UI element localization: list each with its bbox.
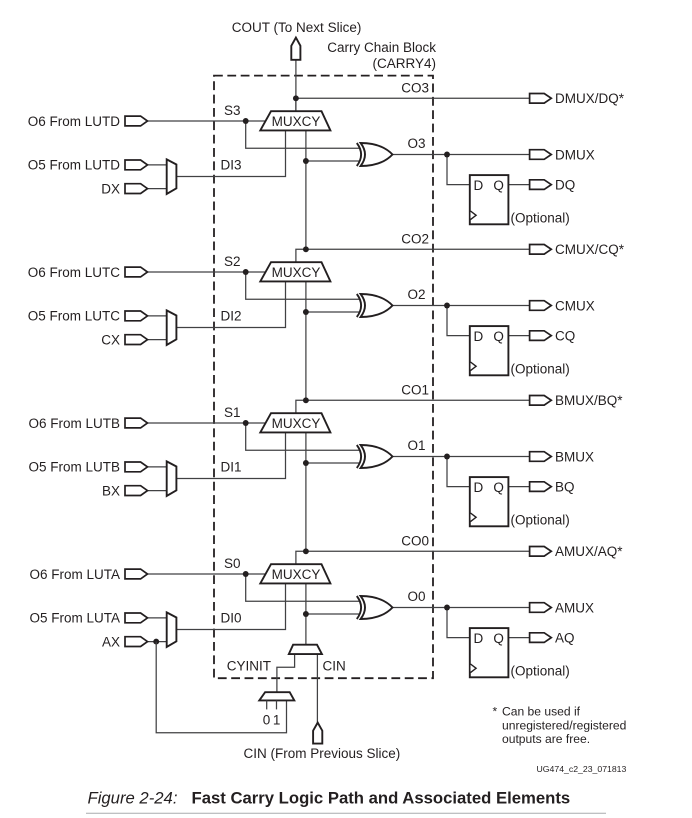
wire: DI2 from mux to MUXCY [176, 281, 285, 327]
wire: O5 to select mux [146, 315, 168, 317]
wire: MUXCY carry out up to CO2 node [296, 249, 306, 262]
svg-text:DMUX/DQ*: DMUX/DQ* [555, 91, 625, 106]
input connector: O6 From LUTB [125, 418, 148, 428]
svg-text:O1: O1 [408, 438, 426, 453]
junction: carry/XOR branch node [303, 309, 309, 315]
svg-text:O2: O2 [408, 287, 426, 302]
svg-text:Q: Q [493, 178, 504, 193]
svg-text:CX: CX [101, 332, 120, 347]
svg-text:O3: O3 [408, 136, 426, 151]
mux: O5/AX selector [167, 612, 177, 647]
svg-text:Fast Carry Logic Path and Asso: Fast Carry Logic Path and Associated Ele… [192, 788, 571, 807]
wire: DI0 from mux to MUXCY [176, 583, 285, 629]
svg-text:O0: O0 [408, 589, 426, 604]
wire: CO1 line to output [306, 399, 531, 401]
XOR gate stage 3 input arc [357, 143, 361, 166]
svg-text:AQ: AQ [555, 630, 575, 645]
wire: BX to select mux [146, 490, 168, 492]
wire: S0 node down to XOR input [246, 574, 360, 601]
svg-text:MUXCY: MUXCY [272, 567, 321, 582]
svg-text:(Optional): (Optional) [511, 664, 570, 679]
pin stub: constant 1 input [276, 700, 278, 709]
flip-flop stage 1 [470, 477, 509, 526]
wire: carry branch to XOR input [306, 160, 359, 162]
wire: O1 node down to flip-flop D input [447, 457, 471, 487]
wire: S1 node down to XOR input [246, 423, 360, 450]
wire: MUXCY carry out to CO3 node [295, 98, 297, 111]
wire: MUXCY carry out up to CO1 node [296, 400, 306, 413]
flip-flop stage 2 [470, 326, 509, 375]
svg-text:O6 From LUTA: O6 From LUTA [29, 567, 120, 582]
svg-text:CIN (From Previous Slice): CIN (From Previous Slice) [244, 746, 401, 761]
output connector: AMUX/AQ* [530, 547, 552, 557]
svg-text:D: D [474, 178, 484, 193]
wire: carry-in chain into MUXCY bottom [305, 583, 307, 644]
wire: carry-in chain into MUXCY bottom [305, 130, 307, 249]
svg-text:S0: S0 [224, 556, 241, 571]
junction: CO1 node [303, 397, 309, 403]
svg-text:MUXCY: MUXCY [272, 265, 321, 280]
pin stub: constant 0 input [266, 700, 268, 709]
wire: O0 node down to flip-flop D input [447, 608, 471, 638]
wire: O2 node down to flip-flop D input [447, 306, 471, 336]
wire: S3 node to MUXCY select [246, 120, 267, 122]
mux: O5/BX selector [167, 461, 177, 496]
junction: O0 node [444, 605, 450, 611]
svg-text:D: D [474, 329, 484, 344]
mux: O5/CX selector [167, 310, 177, 345]
output connector: CMUX/CQ* [530, 245, 552, 255]
junction: carry/XOR branch node [303, 611, 309, 617]
dashed boundary: Carry Chain Block (CARRY4) [214, 76, 433, 679]
wire: flip-flop Q to AQ output [508, 637, 531, 639]
output connector: CMUX [530, 301, 552, 311]
wire: AX to select mux [146, 641, 168, 643]
svg-text:*: * [493, 705, 498, 719]
output connector: DQ [530, 180, 552, 190]
XOR gate stage 0 body [361, 596, 393, 619]
input connector: O6 From LUTC [125, 267, 148, 277]
svg-text:MUXCY: MUXCY [272, 416, 321, 431]
junction: S0 node [243, 571, 249, 577]
svg-text:DX: DX [101, 181, 120, 196]
input connector: BX [125, 486, 148, 496]
svg-text:CQ: CQ [555, 328, 575, 343]
wire: carry branch to XOR input [306, 462, 359, 464]
svg-text:MUXCY: MUXCY [272, 114, 321, 129]
XOR gate stage 2 body [361, 294, 393, 317]
wire: CO0 line to output [306, 550, 531, 552]
svg-text:Can be used if: Can be used if [502, 705, 581, 719]
wire: S0 node to MUXCY select [246, 573, 267, 575]
svg-text:UG474_c2_23_071813: UG474_c2_23_071813 [537, 764, 627, 774]
input connector: O6 From LUTA [125, 569, 148, 579]
input connector: O5 From LUTB [125, 462, 148, 472]
flip-flop stage 0 [470, 628, 509, 677]
svg-text:S2: S2 [224, 254, 241, 269]
wire: carry branch to XOR input [306, 311, 359, 313]
port connector: CIN (from previous slice) [313, 723, 322, 744]
junction: carry/XOR branch node [303, 158, 309, 164]
svg-text:CMUX: CMUX [555, 298, 595, 313]
input connector: O5 From LUTC [125, 311, 148, 321]
svg-text:S3: S3 [224, 103, 241, 118]
output connector: AMUX [530, 603, 552, 613]
svg-text:CO0: CO0 [401, 533, 429, 548]
mux: MUXCY stage 0 [260, 564, 330, 583]
mux: MUXCY stage 1 [260, 413, 330, 432]
wire: DX to select mux [146, 188, 168, 190]
wire: O6 to S0 node [146, 573, 246, 575]
wire: flip-flop Q to DQ output [508, 184, 531, 186]
wire: COUT vertical into MUXCY stage 3 [295, 59, 297, 111]
junction: CO2 node [303, 246, 309, 252]
junction: CO0 node [303, 548, 309, 554]
svg-text:(Optional): (Optional) [511, 362, 570, 377]
wire: O5 to select mux [146, 164, 168, 166]
wire: S3 node down to XOR input [246, 121, 360, 148]
svg-text:AMUX: AMUX [555, 600, 594, 615]
flip-flop clock pin triangle [471, 513, 477, 522]
svg-text:(Optional): (Optional) [511, 513, 570, 528]
caption rule [86, 812, 606, 814]
input connector: O5 From LUTD [125, 160, 148, 170]
svg-text:BQ: BQ [555, 479, 575, 494]
flip-flop clock pin triangle [471, 362, 477, 371]
svg-text:Q: Q [493, 631, 504, 646]
wire: DI3 from mux to MUXCY [176, 130, 285, 176]
svg-text:O6 From LUTD: O6 From LUTD [28, 114, 121, 129]
input connector: CX [125, 335, 148, 345]
wire: MUXCY carry out up to CO0 node [296, 551, 306, 564]
mux: 0/1 constant selector [259, 692, 294, 700]
wire: O5 to select mux [146, 617, 168, 619]
output connector: DMUX [530, 150, 552, 160]
svg-text:CO3: CO3 [401, 80, 429, 95]
XOR gate stage 1 body [361, 445, 393, 468]
svg-text:CIN: CIN [323, 658, 346, 673]
wire: O5 to select mux [146, 466, 168, 468]
svg-text:O5 From LUTB: O5 From LUTB [28, 460, 120, 475]
svg-text:BMUX: BMUX [555, 449, 594, 464]
svg-text:D: D [474, 480, 484, 495]
mux: CYINIT/CIN carry-source selector [289, 645, 322, 654]
svg-text:DI0: DI0 [221, 610, 242, 625]
svg-text:DQ: DQ [555, 177, 575, 192]
svg-text:outputs are free.: outputs are free. [502, 732, 590, 746]
svg-text:CMUX/CQ*: CMUX/CQ* [555, 242, 625, 257]
input connector: AX [125, 637, 148, 647]
svg-text:0: 0 [263, 713, 271, 728]
XOR gate stage 2 input arc [357, 294, 361, 317]
input connector: DX [125, 184, 148, 194]
output connector: CQ [530, 331, 552, 341]
wire: carry-in chain into MUXCY bottom [305, 281, 307, 400]
input connector: O5 From LUTA [125, 613, 148, 623]
output connector: BMUX [530, 452, 552, 462]
wire: O6 to S3 node [146, 120, 246, 122]
junction: O1 node [444, 454, 450, 460]
svg-text:BMUX/BQ*: BMUX/BQ* [555, 393, 623, 408]
svg-text:AX: AX [102, 634, 120, 649]
output connector: AQ [530, 633, 552, 643]
svg-text:1: 1 [273, 713, 281, 728]
wire: S2 node down to XOR input [246, 272, 360, 299]
wire: AX down to 0/1 mux input [156, 642, 286, 733]
wire: O6 to S2 node [146, 271, 246, 273]
wire: flip-flop Q to BQ output [508, 486, 531, 488]
mux: MUXCY stage 2 [260, 262, 330, 281]
svg-text:COUT (To Next Slice): COUT (To Next Slice) [232, 20, 362, 35]
svg-text:O5 From LUTA: O5 From LUTA [29, 611, 120, 626]
svg-text:O6 From LUTB: O6 From LUTB [28, 416, 120, 431]
wire: O6 to S1 node [146, 422, 246, 424]
output connector: BQ [530, 482, 552, 492]
wire: O3 from XOR to DMUX output [392, 154, 531, 156]
input connector: O6 From LUTD [125, 116, 148, 126]
svg-text:DI2: DI2 [221, 308, 242, 323]
junction: AX node [153, 639, 159, 645]
svg-text:Q: Q [493, 329, 504, 344]
XOR gate stage 1 input arc [357, 445, 361, 468]
svg-text:CO1: CO1 [401, 382, 429, 397]
svg-text:DI1: DI1 [221, 459, 242, 474]
junction: S2 node [243, 269, 249, 275]
svg-text:CYINIT: CYINIT [227, 658, 271, 673]
junction: carry/XOR branch node [303, 460, 309, 466]
XOR gate stage 3 body [361, 143, 393, 166]
svg-text:unregistered/registered: unregistered/registered [502, 719, 626, 733]
flip-flop clock pin triangle [471, 211, 477, 220]
wire: O1 from XOR to BMUX output [392, 456, 531, 458]
svg-text:CO2: CO2 [401, 231, 429, 246]
wire: O3 node down to flip-flop D input [447, 155, 471, 185]
svg-text:(Optional): (Optional) [511, 211, 570, 226]
wire: CO2 line to output [306, 248, 531, 250]
wire: DI1 from mux to MUXCY [176, 432, 285, 478]
svg-text:O5 From LUTD: O5 From LUTD [28, 158, 121, 173]
junction: O3 node [444, 152, 450, 158]
output connector: BMUX/BQ* [530, 396, 552, 406]
wire: CX to select mux [146, 339, 168, 341]
mux: MUXCY stage 3 [260, 111, 330, 130]
wire: carry branch to XOR input [306, 613, 359, 615]
junction: CO3 node [293, 95, 299, 101]
svg-text:DMUX: DMUX [555, 147, 595, 162]
svg-text:Q: Q [493, 480, 504, 495]
svg-text:AMUX/AQ*: AMUX/AQ* [555, 544, 623, 559]
output connector: DMUX/DQ* [530, 94, 552, 104]
svg-text:D: D [474, 631, 484, 646]
svg-text:(CARRY4): (CARRY4) [372, 56, 436, 71]
XOR gate stage 0 input arc [357, 596, 361, 619]
junction: S1 node [243, 420, 249, 426]
wire: O2 from XOR to CMUX output [392, 305, 531, 307]
wire: CO3 line to output [296, 97, 531, 99]
wire: CIN up into carry mux [316, 654, 318, 723]
svg-text:BX: BX [102, 483, 120, 498]
wire: carry-in chain into MUXCY bottom [305, 432, 307, 551]
junction: S3 node [243, 118, 249, 124]
junction: O2 node [444, 303, 450, 309]
svg-text:O5 From LUTC: O5 From LUTC [28, 309, 121, 324]
svg-text:S1: S1 [224, 405, 241, 420]
svg-text:O6 From LUTC: O6 From LUTC [28, 265, 121, 280]
flip-flop clock pin triangle [471, 664, 477, 673]
svg-text:Figure 2-24:: Figure 2-24: [88, 788, 178, 807]
wire: S2 node to MUXCY select [246, 271, 267, 273]
svg-text:DI3: DI3 [221, 157, 242, 172]
mux: O5/DX selector [167, 159, 177, 194]
wire: S1 node to MUXCY select [246, 422, 267, 424]
wire: flip-flop Q to CQ output [508, 335, 531, 337]
wire: O0 from XOR to AMUX output [392, 607, 531, 609]
flip-flop stage 3 [470, 175, 509, 224]
svg-text:Carry Chain Block: Carry Chain Block [327, 40, 436, 55]
wire: CYINIT step from 0/1 mux to carry mux [277, 654, 295, 692]
port connector: COUT (to next slice) [291, 38, 300, 60]
